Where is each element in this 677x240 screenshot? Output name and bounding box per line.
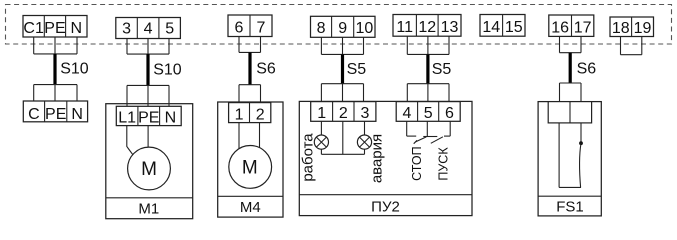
svg-text:S10: S10 [153, 61, 182, 78]
label avaria [368, 134, 385, 183]
button SB2 PUSK contact blade [431, 137, 443, 144]
svg-text:18: 18 [612, 20, 630, 37]
label S10 (left) [60, 60, 89, 77]
svg-text:S6: S6 [577, 60, 597, 77]
svg-text:2: 2 [339, 105, 348, 122]
FS1 terminal block [548, 102, 591, 123]
terminal block XT 18/19 [610, 17, 654, 37]
svg-text:L1: L1 [118, 109, 136, 126]
button SB1 STOP contact blade [414, 137, 427, 144]
svg-text:S5: S5 [347, 61, 367, 78]
svg-text:C: C [28, 106, 40, 123]
svg-text:9: 9 [338, 20, 347, 37]
svg-text:S6: S6 [256, 60, 276, 77]
svg-text:СТОП: СТОП [410, 146, 424, 180]
wire terminal 6 to button SB2 [444, 121, 450, 136]
wire funnel above plug C/PE/N [34, 85, 77, 101]
svg-text:6: 6 [235, 19, 244, 36]
wire funnel under XT 8/9/10 [321, 37, 363, 54]
wire funnel above FS1 terminals [560, 83, 582, 102]
wire funnel under XT 6/7 [239, 37, 261, 53]
svg-text:7: 7 [257, 19, 266, 36]
cable S6 (M4) [248, 52, 251, 84]
terminal block XT C1/PE/N [23, 16, 87, 38]
terminal block XT 11/12/13 [393, 15, 461, 37]
wire funnel above M4 terminals [239, 85, 261, 103]
svg-text:11: 11 [396, 19, 413, 36]
terminal block XT 8/9/10 [311, 16, 376, 37]
terminal block XT 16/17 [549, 15, 594, 36]
device box M1 outline [106, 104, 193, 219]
svg-text:S10: S10 [60, 60, 89, 77]
svg-text:15: 15 [505, 19, 523, 36]
wire funnel under XT 11/12/13 [407, 36, 449, 54]
svg-text:M4: M4 [240, 199, 261, 216]
cable S6 (FS1) [569, 53, 572, 83]
svg-text:N: N [71, 106, 83, 123]
svg-text:N: N [165, 109, 177, 126]
wire terminal 4 to button SB1 [407, 121, 417, 136]
wire funnel under XT 18/19 [621, 37, 642, 55]
svg-text:1: 1 [235, 107, 244, 124]
terminal block XT 14/15 [480, 15, 525, 37]
svg-text:16: 16 [551, 19, 569, 36]
svg-text:авария: авария [368, 134, 385, 183]
svg-text:10: 10 [355, 20, 373, 37]
terminal block plug C/PE/N [23, 101, 87, 123]
float sensor electrode right with junction [579, 123, 583, 187]
label rabota [300, 133, 317, 182]
wire funnel above PU2 terminals 4/5/6 [407, 84, 449, 102]
terminal strip dashed enclosure [6, 5, 672, 45]
wire funnel above PU2 terminals 1/2/3 [321, 84, 363, 102]
label FS1 [556, 199, 584, 216]
label S10 (M1) [153, 61, 182, 78]
svg-text:FS1: FS1 [556, 199, 584, 216]
label STOP [410, 146, 424, 180]
wire terminal 2 to motor [259, 123, 261, 148]
svg-text:4: 4 [402, 105, 411, 122]
svg-text:M: M [141, 159, 157, 180]
wire terminal 1 to lamp HL1 [320, 121, 322, 135]
svg-text:3: 3 [360, 105, 369, 122]
svg-text:6: 6 [445, 105, 454, 122]
lamp common bus wire [321, 149, 364, 154]
svg-text:ПУСК: ПУСК [437, 147, 451, 181]
svg-text:C1: C1 [23, 20, 44, 37]
svg-text:N: N [71, 20, 83, 37]
float sensor electrode left [558, 123, 560, 187]
cable S10 (left) [53, 54, 56, 85]
svg-text:4: 4 [144, 20, 153, 37]
label PU2 [371, 199, 400, 216]
wire PE to motor [147, 126, 149, 148]
terminal block XT 6/7 [228, 15, 272, 37]
lamp HL2 (avaria) [357, 135, 371, 149]
wire terminal 1 to motor [238, 123, 240, 149]
terminal block XT 3/4/5 [116, 18, 181, 39]
label S5 (PU2 buttons) [432, 61, 452, 78]
svg-text:M: M [242, 157, 258, 178]
wire funnel above M1 terminals [127, 85, 169, 106]
svg-text:PE: PE [45, 106, 66, 123]
device box FS1 outline [538, 102, 601, 216]
label S6 (M4) [256, 60, 276, 77]
wire terminal 3 to lamp HL2 [364, 121, 366, 135]
wire terminal 5 common [423, 121, 437, 136]
svg-text:5: 5 [424, 105, 433, 122]
svg-text:1: 1 [317, 105, 326, 122]
svg-text:2: 2 [256, 107, 265, 124]
terminal block PU2 terminals 4/5/6 [396, 102, 460, 122]
cable S5 (PU2 buttons) [426, 54, 429, 83]
svg-text:19: 19 [634, 20, 652, 37]
terminal block M4 terminals 1/2 [229, 103, 271, 124]
svg-text:ПУ2: ПУ2 [371, 199, 400, 216]
cable S10 (M1) [146, 54, 149, 85]
label M4 [240, 199, 261, 216]
wire L1 to motor [127, 126, 134, 156]
wire terminal 2 to lamp bus [342, 121, 344, 154]
cable S5 (PU2 lamps) [341, 54, 344, 83]
svg-text:S5: S5 [432, 61, 452, 78]
svg-text:работа: работа [300, 133, 317, 182]
device box PU2 outline [299, 101, 472, 215]
label PUSK [437, 147, 451, 181]
svg-text:M1: M1 [138, 201, 159, 218]
svg-text:14: 14 [482, 19, 500, 36]
svg-text:13: 13 [441, 19, 459, 36]
svg-text:PE: PE [44, 20, 65, 37]
terminal block M1 terminals L1/PE/N [116, 106, 181, 126]
wire funnel under XT 16/17 [560, 36, 582, 52]
svg-text:5: 5 [165, 20, 174, 37]
wire funnel under XT 3/4/5 [127, 39, 169, 55]
float sensor bottom bar [559, 186, 581, 188]
lamp HL1 (rabota) [314, 135, 328, 149]
svg-text:3: 3 [122, 20, 131, 37]
motor M (M1) [128, 147, 171, 190]
svg-text:8: 8 [317, 20, 326, 37]
wire funnel under XT C1/PE/N [34, 37, 77, 54]
svg-text:12: 12 [418, 19, 436, 36]
svg-text:17: 17 [574, 19, 592, 36]
label S6 (FS1) [577, 60, 597, 77]
label S5 (PU2 lamps) [347, 61, 367, 78]
terminal block PU2 terminals 1/2/3 [311, 102, 376, 122]
label M1 [138, 201, 159, 218]
svg-text:PE: PE [138, 109, 159, 126]
motor M (M4) [229, 146, 272, 189]
device box M4 outline [218, 102, 283, 217]
